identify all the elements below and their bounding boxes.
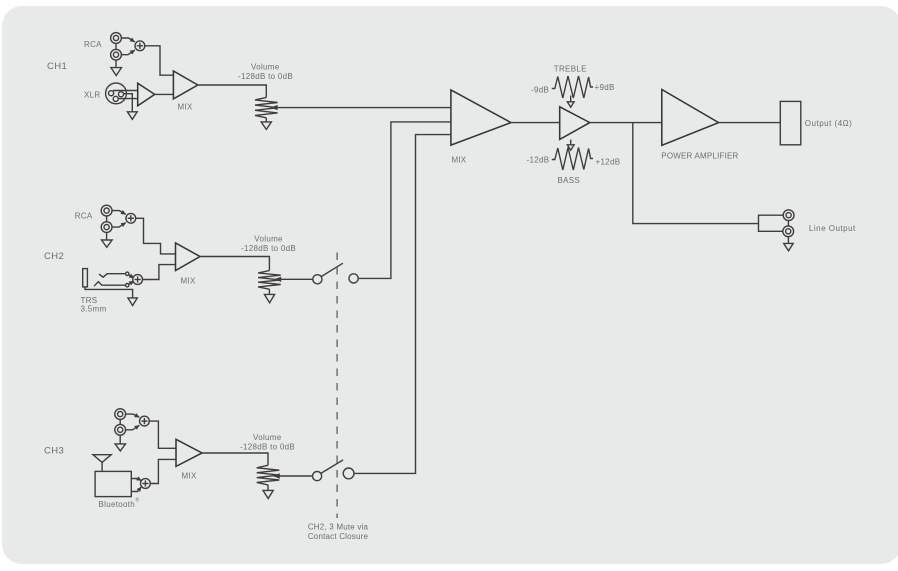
line output bracket wire <box>759 215 784 231</box>
connector J3 RCA inputs CH2 <box>75 205 112 232</box>
svg-text:MIX: MIX <box>452 156 467 165</box>
wire U3 to potentiometer VR3 <box>202 453 268 465</box>
svg-text:CH2: CH2 <box>44 251 64 262</box>
wire S2 to mixer U2 <box>135 218 175 254</box>
wire U2 to potentiometer VR2 <box>200 257 269 271</box>
svg-text:Volume: Volume <box>253 433 282 442</box>
svg-text:Line Output: Line Output <box>809 224 856 233</box>
ground under J4 sleeve <box>128 298 137 306</box>
potentiometer VR3 Volume CH3 <box>240 433 295 485</box>
ground under J5 <box>115 435 125 451</box>
svg-text:TREBLE: TREBLE <box>554 64 587 73</box>
op-amp U2 MIX CH2 <box>176 243 201 286</box>
wire S5 to mixer U3 <box>150 459 176 483</box>
svg-text:-128dB to 0dB: -128dB to 0dB <box>240 443 295 452</box>
wire J1 bottom to summing node S1 <box>121 50 135 55</box>
summing node S4 CH3 <box>140 416 150 426</box>
mute contact closure dashed line <box>336 253 338 519</box>
wire J4 tip contact to summing node S3 <box>99 272 134 278</box>
svg-text:Output (4Ω): Output (4Ω) <box>805 119 853 128</box>
wire SW2 to mixer U4 <box>354 135 451 474</box>
connector J1 RCA inputs CH1 <box>84 33 121 61</box>
wire U6 to output terminal <box>719 122 781 124</box>
ground under J3 <box>102 232 113 247</box>
wire S1 to mixer U1 <box>144 46 173 75</box>
power amplifier U6 <box>661 90 738 161</box>
svg-text:-128dB to 0dB: -128dB to 0dB <box>238 72 293 81</box>
wire J2 pin to ground <box>124 94 133 112</box>
svg-text:CH1: CH1 <box>47 61 67 72</box>
node mute annotation <box>308 523 369 542</box>
op-amp U1 MIX CH1 <box>173 71 197 112</box>
summing node S5 CH3 <box>141 479 151 489</box>
svg-text:RCA: RCA <box>75 212 93 221</box>
svg-text:MIX: MIX <box>181 277 196 286</box>
antenna of Bluetooth module <box>93 455 111 472</box>
svg-text:XLR: XLR <box>84 91 100 100</box>
wiper arrow VR4 to U5 <box>567 96 574 108</box>
summing node S1 CH1 <box>135 41 145 51</box>
wire SW1 to mixer U4 <box>358 122 451 279</box>
tone op-amp U5 <box>560 107 590 140</box>
connector J4 TRS jack CH2 <box>81 269 107 314</box>
switch SW2 CH3 mute <box>313 460 355 481</box>
wire VR1 wiper to mixer U4 <box>277 107 451 109</box>
svg-text:MIX: MIX <box>182 472 197 481</box>
svg-text:RCA: RCA <box>84 40 102 49</box>
ground under VR3 <box>263 485 273 499</box>
potentiometer VR1 Volume CH1 <box>238 63 293 118</box>
wire J4 sleeve to ground <box>85 287 133 298</box>
ground under VR2 <box>264 289 274 303</box>
ground under J1 <box>111 60 122 76</box>
ground under J6 <box>784 236 794 251</box>
svg-text:Contact Closure: Contact Closure <box>308 532 369 541</box>
svg-text:3.5mm: 3.5mm <box>81 305 107 314</box>
wire VR2 wiper to switch SW1 <box>281 278 313 280</box>
wire J3 top to summing node S2 <box>112 211 126 215</box>
wire J3 bottom to summing node S2 <box>112 223 126 228</box>
connector J2 XLR input CH1 <box>84 83 126 104</box>
wiper arrow U5 to VR5 <box>567 140 574 151</box>
wire A1 to mixer U1 <box>155 93 174 95</box>
wire U5 to power amplifier U6 <box>590 122 662 124</box>
svg-text:-128dB to 0dB: -128dB to 0dB <box>241 244 296 253</box>
wire J2 pin to op-amp A1 input 1 <box>113 90 138 92</box>
wire J5 bottom to summing node S4 <box>125 425 139 430</box>
svg-text:BASS: BASS <box>558 176 581 185</box>
switch SW1 CH2 mute <box>313 263 358 284</box>
wire junction to line output <box>633 123 759 224</box>
wire J2 pin to op-amp A1 input 2 <box>118 98 138 100</box>
connector J5 RCA inputs CH3 <box>115 409 126 435</box>
svg-text:Volume: Volume <box>254 235 283 244</box>
op-amp U4 master MIX <box>451 90 511 165</box>
ground under VR1 <box>261 118 271 130</box>
wire U1 to potentiometer VR1 <box>198 85 266 97</box>
wire M1 out 2 to summing node S5 <box>131 487 141 492</box>
potentiometer VR5 BASS <box>527 148 621 185</box>
potentiometer VR2 Volume CH2 <box>241 235 296 290</box>
svg-text:®: ® <box>136 497 140 504</box>
speaker output terminal <box>780 101 852 144</box>
svg-text:+12dB: +12dB <box>596 157 621 166</box>
svg-text:POWER AMPLIFIER: POWER AMPLIFIER <box>661 152 738 161</box>
summing node S3 CH2 <box>133 275 143 285</box>
connector J6 line output RCA pair <box>783 210 856 237</box>
svg-text:-9dB: -9dB <box>531 86 549 95</box>
wire VR3 wiper to switch SW2 <box>279 475 312 477</box>
wire J1 top to summing node S1 <box>121 38 135 42</box>
op-amp A1 XLR buffer CH1 <box>138 83 155 106</box>
potentiometer VR4 TREBLE <box>531 64 615 98</box>
svg-text:Bluetooth: Bluetooth <box>99 500 136 509</box>
op-amp U3 MIX CH3 <box>176 439 202 480</box>
Bluetooth module M1 <box>95 471 139 509</box>
svg-text:+9dB: +9dB <box>595 83 615 92</box>
wire M1 out 1 to summing node S5 <box>131 479 141 481</box>
wire S3 to mixer U2 <box>142 265 175 280</box>
svg-text:CH3: CH3 <box>44 446 64 457</box>
svg-text:Volume: Volume <box>251 63 280 72</box>
svg-text:CH2, 3 Mute via: CH2, 3 Mute via <box>308 523 369 532</box>
wire J5 top to summing node S4 <box>125 414 139 417</box>
wire U4 to tone amp U5 <box>511 122 560 124</box>
svg-text:-12dB: -12dB <box>527 156 550 165</box>
ground under J2 XLR <box>127 112 137 120</box>
svg-text:MIX: MIX <box>178 103 193 112</box>
summing node S2 CH2 <box>126 213 136 223</box>
wire J4 ring contact to summing node S3 <box>94 281 134 287</box>
wire S4 to mixer U3 <box>149 421 176 448</box>
